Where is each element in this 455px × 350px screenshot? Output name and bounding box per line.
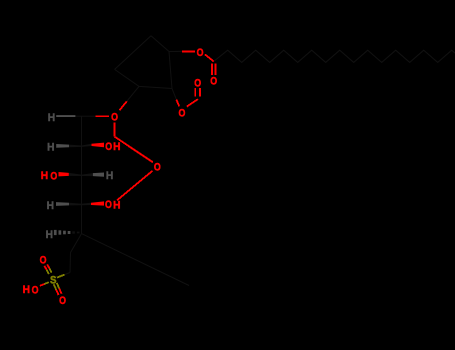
svg-text:H: H [46,229,53,241]
svg-text:H: H [47,200,54,212]
svg-text:H: H [41,170,48,182]
svg-text:O: O [32,284,39,296]
svg-text:O: O [59,295,66,307]
svg-text:H: H [106,170,113,182]
svg-text:O: O [154,162,161,174]
svg-text:O: O [105,141,112,153]
svg-text:O: O [111,112,118,124]
svg-text:O: O [197,47,204,59]
svg-text:H: H [47,142,54,154]
svg-text:O: O [178,108,185,120]
svg-text:O: O [40,254,47,266]
svg-text:O: O [105,199,112,211]
svg-text:H: H [113,199,120,211]
svg-text:H: H [113,141,120,153]
svg-text:O: O [210,76,217,88]
svg-text:H: H [23,284,30,296]
svg-text:H: H [48,112,55,124]
svg-text:S: S [50,275,57,287]
svg-text:O: O [50,170,57,182]
svg-text:O: O [194,77,201,89]
